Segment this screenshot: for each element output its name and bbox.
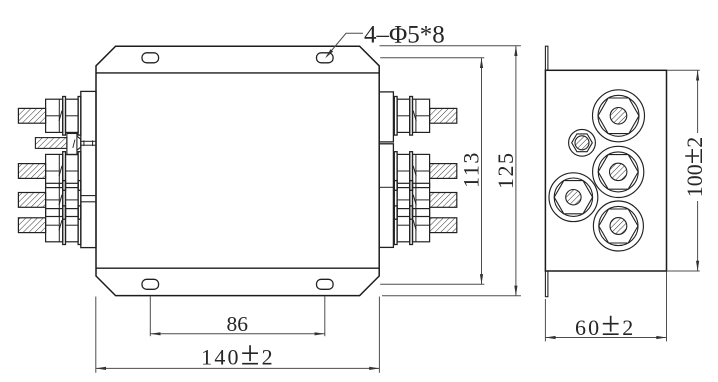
dimension 125: dimension line with arrows <box>514 46 517 296</box>
dimension 86: text <box>226 312 248 336</box>
right terminal stud 1 <box>394 97 457 136</box>
left terminal stud 1 (bolt, nut, washers) <box>18 97 81 136</box>
left terminal stud 3 <box>18 181 81 220</box>
front view: top flange fold line <box>96 72 379 74</box>
dimension 113: dimension line with arrows <box>480 58 483 284</box>
side view: bottom mounting flange tab <box>545 271 548 297</box>
left ground stud (small bolt through plate) <box>35 134 96 155</box>
dimension 140±2: dimension line with arrows <box>96 367 380 370</box>
right terminal mounting plate (lower) <box>379 144 393 248</box>
side view terminal stud C (middle) <box>593 146 644 197</box>
side view terminal stud D (left) <box>549 173 598 222</box>
side view terminal stud A (top) <box>593 90 645 142</box>
svg-text:125: 125 <box>493 151 518 189</box>
dimension 125: extension lines <box>380 46 521 296</box>
right terminal mounting plate (upper) <box>379 92 393 142</box>
side view: filter body box <box>545 70 666 271</box>
front view: filter body outline with chamfered mounting flanges <box>96 46 379 295</box>
dimension 60±2: dimension line with arrows <box>545 336 666 339</box>
right terminal stud 4 <box>394 206 457 245</box>
leader line and arrow for hole callout <box>325 33 363 58</box>
mounting slot top-right <box>317 53 334 63</box>
dimension 125: text <box>493 151 518 189</box>
dimension 100±2: extension lines <box>667 70 700 271</box>
left terminal mounting plate <box>81 91 96 247</box>
svg-text:4–Φ5*8: 4–Φ5*8 <box>364 22 445 49</box>
side view terminal stud B (small, ground) <box>569 129 596 156</box>
dimension 86: extension lines <box>150 296 324 336</box>
dimension 100±2: text <box>676 137 709 197</box>
right terminal stud 3 <box>394 181 457 220</box>
left terminal stud 4 <box>18 206 81 245</box>
dimension 100±2: dimension line with arrows <box>696 70 699 271</box>
svg-text:113: 113 <box>459 151 484 188</box>
mounting slot top-left <box>142 53 159 63</box>
dimension 140±2: extension lines <box>96 297 380 373</box>
mounting slot bottom-right <box>317 279 334 289</box>
dimension 86: dimension line with arrows <box>150 332 324 335</box>
dimension 60±2: text <box>575 306 635 343</box>
right terminal stud 2 <box>394 152 457 191</box>
side view: top mounting flange tab <box>545 46 548 70</box>
mounting slot bottom-left <box>142 279 159 289</box>
svg-text:86: 86 <box>226 312 248 336</box>
dimension 60±2: extension lines <box>545 272 666 342</box>
dimension 140±2: text <box>201 336 275 373</box>
dimension 113: extension lines <box>380 58 484 284</box>
side view terminal stud E (bottom) <box>593 201 643 251</box>
left terminal stud 2 <box>18 152 81 191</box>
dimension 113: text <box>459 151 484 188</box>
hole callout text 4-Phi5*8 <box>364 22 445 49</box>
front view: bottom flange fold line <box>96 267 379 269</box>
